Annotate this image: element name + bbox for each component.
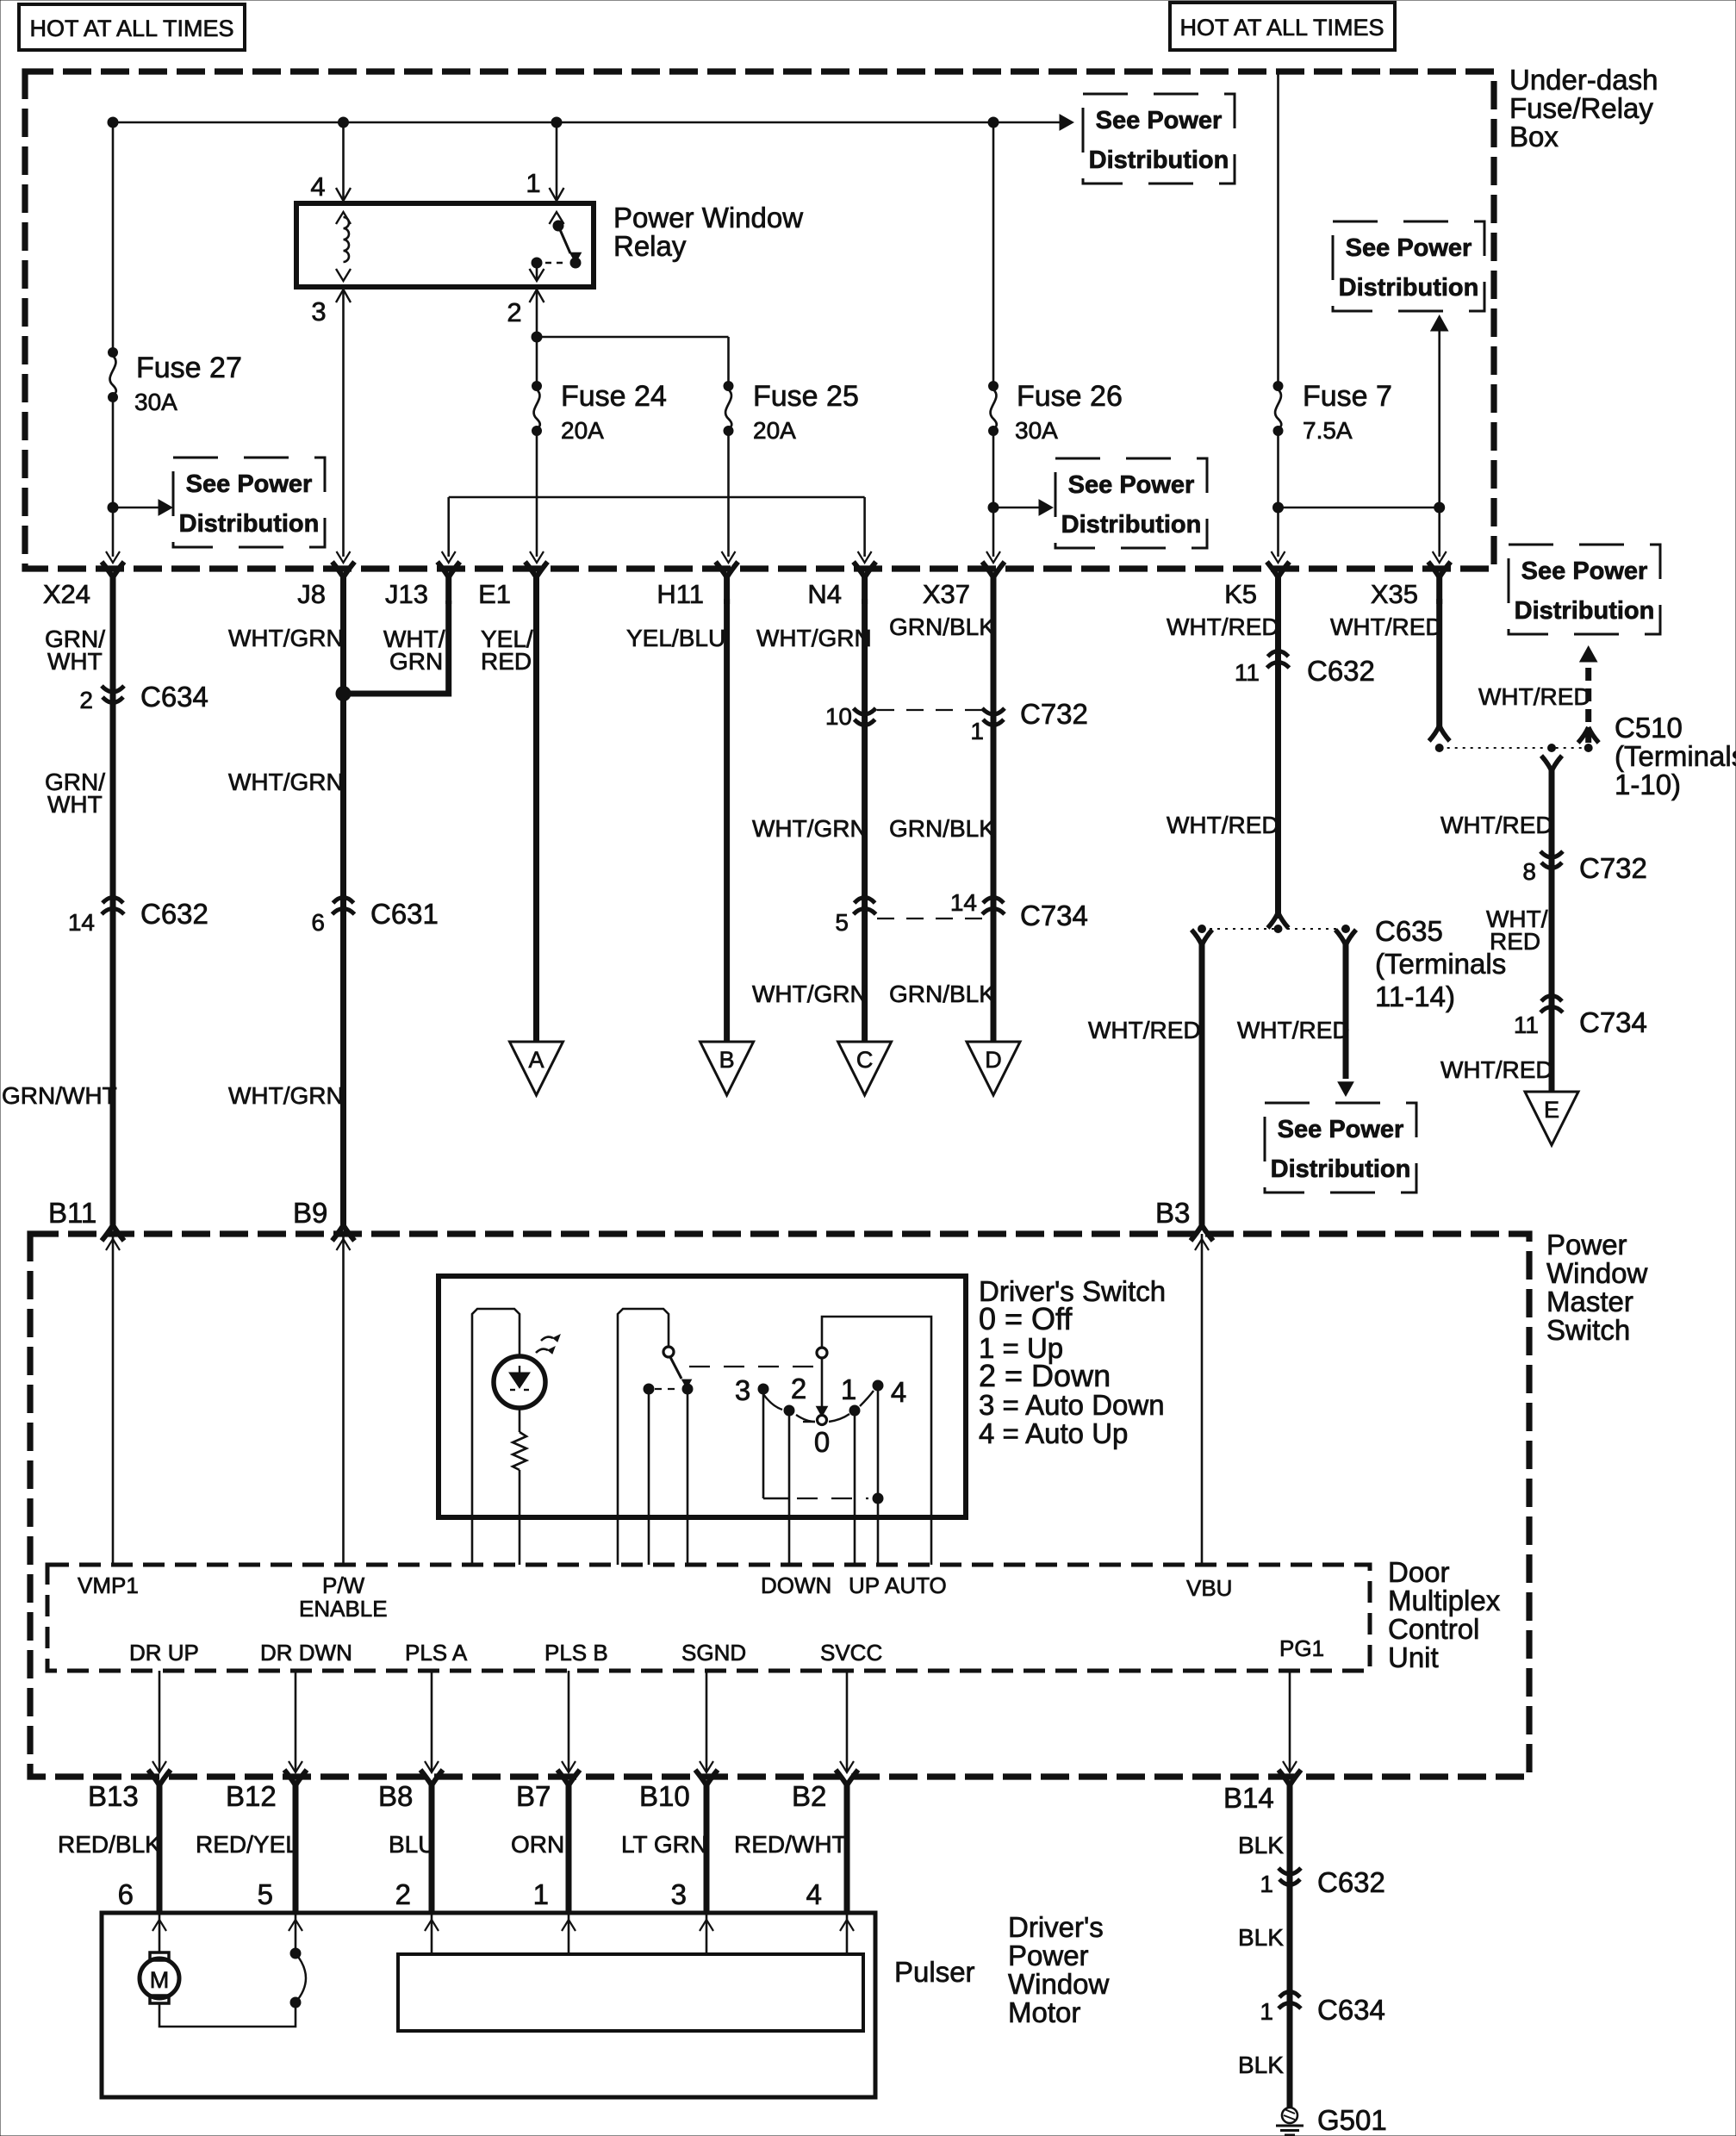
relay coil pin4 chevron	[336, 212, 351, 224]
wire E1 YEL/RED	[533, 599, 539, 1042]
svg-text:X35: X35	[1371, 579, 1418, 609]
P/W enable dashed link	[655, 1388, 681, 1390]
svg-text:Window: Window	[1008, 1968, 1110, 2000]
svg-text:YEL/BLU: YEL/BLU	[626, 625, 725, 651]
svg-text:C732: C732	[1579, 852, 1647, 884]
relay switch dashed link	[545, 262, 566, 264]
svg-text:Pulser: Pulser	[894, 1956, 975, 1988]
svg-text:10: 10	[825, 703, 852, 730]
svg-text:C734: C734	[1579, 1006, 1647, 1038]
svg-text:B11: B11	[48, 1197, 96, 1229]
relay switch common node	[553, 221, 563, 231]
driver's switch box	[439, 1276, 966, 1517]
svg-text:SGND: SGND	[681, 1640, 746, 1666]
node fuse7-X35 corner	[1434, 502, 1445, 513]
svg-text:VMP1: VMP1	[78, 1572, 139, 1598]
svg-text:Multiplex: Multiplex	[1388, 1585, 1501, 1616]
svg-text:WHT/GRN: WHT/GRN	[228, 1082, 344, 1109]
arrowhead into motor box x=820	[700, 1920, 713, 1931]
wire fuse7 to X35	[1279, 507, 1440, 509]
svg-text:Master: Master	[1546, 1286, 1633, 1317]
see power distribution box 1	[173, 458, 325, 547]
P/W enable contact b	[682, 1384, 693, 1394]
wire branch J13/N4	[449, 496, 865, 499]
connector C732 pin10	[854, 708, 876, 725]
svg-text:B10: B10	[639, 1780, 690, 1812]
wire to pulser x=820	[706, 1913, 708, 1954]
svg-text:B13: B13	[88, 1780, 139, 1812]
svg-text:BLK: BLK	[1238, 1832, 1284, 1859]
svg-text:GRN/BLK: GRN/BLK	[889, 815, 995, 842]
rotary contact 3	[758, 1384, 768, 1394]
node fuse7 tap	[1273, 502, 1284, 513]
label HOT AT ALL TIMES (right)	[1170, 3, 1395, 50]
connector J13	[438, 562, 460, 604]
wire SGND to connector	[706, 1671, 708, 1772]
node A (to front window circuits)	[510, 1042, 563, 1095]
pulser switch contact bottom	[290, 1997, 301, 2008]
svg-text:Door: Door	[1388, 1556, 1450, 1588]
svg-text:11-14): 11-14)	[1375, 981, 1455, 1012]
svg-text:30A: 30A	[1015, 417, 1058, 444]
wire fuse 7 feed	[1277, 72, 1279, 382]
svg-text:1: 1	[533, 1878, 549, 1910]
node C510-c	[1584, 744, 1592, 752]
svg-text:Power: Power	[1008, 1940, 1089, 1971]
svg-text:Fuse 27: Fuse 27	[136, 352, 242, 384]
svg-text:Power Window: Power Window	[613, 202, 803, 234]
svg-text:GRN/BLK: GRN/BLK	[889, 613, 995, 640]
node bus-relay pin1	[551, 117, 562, 128]
wire fuse25 to H11	[727, 433, 730, 557]
arrowhead into motor box x=660	[562, 1920, 576, 1931]
node bus-X37	[988, 117, 999, 128]
resistor R (LED)	[513, 1432, 526, 1470]
svg-text:PLS B: PLS B	[544, 1640, 608, 1666]
node fuse26 tap	[988, 502, 999, 513]
node C635-b	[1274, 925, 1282, 933]
connector C734 pin14	[982, 898, 1005, 915]
connector C635 wire end	[1268, 912, 1289, 928]
node E	[1525, 1092, 1578, 1145]
svg-text:Distribution: Distribution	[179, 510, 320, 538]
wire B8 to motor	[429, 1808, 435, 1913]
svg-text:ORN: ORN	[511, 1831, 564, 1858]
svg-text:4: 4	[310, 171, 325, 202]
svg-text:C: C	[856, 1047, 874, 1073]
connector B7	[557, 1770, 580, 1812]
connector B2	[836, 1770, 858, 1812]
wire SVCC to connector	[846, 1671, 849, 1772]
svg-text:C510: C510	[1615, 712, 1683, 744]
pin 3 birdfoot	[336, 290, 351, 302]
svg-text:N4: N4	[807, 579, 842, 609]
svg-text:3 = Auto Down: 3 = Auto Down	[979, 1389, 1165, 1421]
svg-text:5: 5	[258, 1878, 273, 1910]
wire P/W enable switch loop	[618, 1309, 669, 1565]
svg-text:0: 0	[814, 1426, 830, 1458]
svg-text:C734: C734	[1020, 900, 1088, 931]
svg-text:See Power: See Power	[1346, 234, 1472, 262]
svg-text:2 = Down: 2 = Down	[979, 1358, 1111, 1393]
connector C732 pin1	[982, 708, 1005, 725]
wire LED to resistor	[519, 1408, 521, 1432]
node fuse27 tap	[108, 502, 118, 513]
connector C734 pin5	[854, 898, 876, 915]
svg-text:See Power: See Power	[1521, 557, 1648, 585]
svg-text:DOWN: DOWN	[761, 1572, 831, 1598]
node C635-c	[1342, 925, 1350, 933]
connector B10	[695, 1770, 718, 1812]
wire resistor down	[519, 1470, 521, 1565]
relay switch NO contact	[570, 258, 581, 268]
svg-text:A: A	[528, 1047, 544, 1073]
svg-text:B12: B12	[226, 1780, 277, 1812]
connector C634 pin2	[102, 686, 124, 703]
relay pin2 link	[536, 266, 538, 279]
svg-text:11: 11	[1235, 659, 1260, 686]
wire jumper to fuse25	[537, 336, 729, 339]
svg-text:B9: B9	[293, 1197, 327, 1229]
ground G501	[1282, 2108, 1297, 2123]
svg-text:C632: C632	[1317, 1866, 1385, 1898]
wire B3 WHT/RED	[1199, 943, 1205, 1217]
rotary contact 2	[784, 1405, 794, 1416]
connector C510 pin8 wire start	[1541, 756, 1562, 771]
svg-text:WHT/GRN: WHT/GRN	[756, 625, 872, 651]
svg-text:0 = Off: 0 = Off	[979, 1301, 1073, 1336]
svg-text:WHT/RED: WHT/RED	[1088, 1017, 1201, 1043]
fuse F27	[109, 348, 118, 402]
wire B12 to motor	[293, 1808, 299, 1913]
relay coil pin3 chevron	[336, 269, 351, 281]
svg-text:2: 2	[791, 1373, 806, 1404]
rotary position 0 node	[818, 1416, 827, 1425]
svg-text:WHT: WHT	[47, 648, 103, 675]
svg-text:6: 6	[311, 909, 325, 936]
see power distribution box 5	[1509, 545, 1660, 634]
svg-text:B: B	[719, 1047, 735, 1073]
bus arrow to See Power Distribution	[1060, 115, 1073, 130]
wire to pulser x=501	[431, 1913, 433, 1954]
svg-text:BLK: BLK	[1238, 1924, 1284, 1951]
connector J8	[333, 562, 355, 604]
svg-text:WHT/RED: WHT/RED	[1440, 812, 1553, 838]
pulser box	[398, 1954, 863, 2031]
wire PLS A to connector	[431, 1671, 433, 1772]
svg-text:RED: RED	[481, 648, 532, 675]
svg-text:Box: Box	[1509, 121, 1559, 153]
P/W enable switch pivot	[663, 1347, 674, 1357]
rotary contact 1	[849, 1405, 860, 1416]
fuse F25	[724, 382, 733, 436]
rotary contact 4	[873, 1380, 883, 1391]
svg-text:20A: 20A	[561, 417, 604, 444]
svg-text:See Power: See Power	[1096, 107, 1223, 134]
svg-text:Distribution: Distribution	[1089, 146, 1229, 174]
svg-text:C634: C634	[1317, 1994, 1385, 2026]
svg-text:14: 14	[68, 909, 95, 936]
wire relay pin4 feed	[342, 122, 345, 202]
connector E1	[526, 562, 548, 604]
see power distribution box 6	[1265, 1103, 1416, 1193]
svg-text:B2: B2	[792, 1780, 826, 1812]
svg-text:See Power: See Power	[186, 470, 313, 498]
svg-text:C631: C631	[370, 898, 439, 930]
wire X37 GRN/BLK	[991, 599, 997, 1042]
svg-text:1: 1	[526, 168, 540, 198]
node pin2 branch	[532, 332, 542, 342]
svg-text:1: 1	[841, 1373, 856, 1405]
wire PG1 to connector	[1289, 1671, 1291, 1772]
wire VBU (B3 internal)	[1201, 1234, 1204, 1565]
pin 1 birdfoot	[550, 188, 564, 201]
connector C734 pin11	[1540, 996, 1563, 1013]
wire B2 to motor	[844, 1808, 850, 1913]
wire relay pin3 to J8	[342, 290, 345, 557]
svg-text:K5: K5	[1224, 579, 1257, 609]
connector B9	[333, 1199, 355, 1241]
svg-text:WHT/GRN: WHT/GRN	[228, 769, 344, 795]
wire contact 1 down (UP)	[854, 1416, 856, 1565]
wire to pulser x=660	[568, 1913, 570, 1954]
wire to power distribution (down)	[1343, 943, 1349, 1079]
wire arrow to power distribution 2	[999, 507, 1041, 509]
node contact4 link	[873, 1493, 883, 1504]
relay pin2 chevron	[530, 269, 544, 281]
svg-text:4: 4	[806, 1878, 822, 1910]
svg-text:P/W: P/W	[322, 1572, 365, 1598]
connector H11	[716, 562, 738, 604]
svg-text:WHT/RED: WHT/RED	[1167, 613, 1279, 640]
svg-text:E: E	[1544, 1097, 1559, 1123]
svg-text:1-10): 1-10)	[1615, 769, 1681, 800]
wire power bus	[113, 121, 1060, 124]
svg-text:H11: H11	[656, 579, 704, 609]
node B	[700, 1042, 754, 1095]
svg-text:WHT/RED: WHT/RED	[1237, 1017, 1350, 1043]
door multiplex control unit box (dashed)	[47, 1565, 1370, 1671]
svg-text:Control: Control	[1388, 1613, 1479, 1645]
wire motor return	[159, 2003, 296, 2027]
svg-text:Distribution: Distribution	[1061, 511, 1202, 539]
connector C635 dotted line	[1202, 928, 1346, 930]
svg-text:Fuse/Relay: Fuse/Relay	[1509, 92, 1653, 124]
svg-text:2: 2	[507, 297, 521, 327]
LED diode symbol	[509, 1373, 530, 1388]
wire B10 to motor	[704, 1808, 710, 1913]
wire DR DWN to connector	[295, 1671, 297, 1772]
wire arrow to power distribution	[118, 507, 160, 509]
svg-text:C632: C632	[140, 898, 208, 930]
svg-text:30A: 30A	[134, 389, 177, 415]
relay switch NC contact	[532, 258, 542, 268]
svg-text:2: 2	[79, 687, 93, 713]
svg-text:HOT AT ALL TIMES: HOT AT ALL TIMES	[1179, 15, 1384, 40]
svg-text:Driver's: Driver's	[1008, 1911, 1104, 1943]
wire B13 to motor	[157, 1808, 163, 1913]
motor M circle	[140, 1959, 179, 1998]
node J8-J13 junction	[336, 687, 351, 701]
rotary selector arrow	[821, 1359, 824, 1406]
svg-text:2: 2	[395, 1878, 411, 1910]
wire J13 branch	[344, 601, 449, 694]
connector C632 pin14	[102, 898, 124, 915]
svg-text:Fuse 7: Fuse 7	[1303, 380, 1392, 413]
motor M terminals	[150, 1952, 169, 1960]
svg-text:AUTO: AUTO	[885, 1572, 947, 1598]
svg-text:11: 11	[1514, 1012, 1539, 1038]
wire LED loop	[472, 1309, 520, 1565]
wire J8 WHT/GRN	[340, 599, 346, 1217]
driver's power window motor box	[102, 1913, 875, 2097]
svg-text:WHT/GRN: WHT/GRN	[752, 815, 868, 842]
wire drop to J13	[447, 497, 450, 557]
svg-text:M: M	[150, 1967, 170, 1993]
node bus-X24	[108, 117, 118, 128]
wire B7 to motor	[566, 1808, 572, 1913]
svg-text:X37: X37	[923, 579, 970, 609]
fuse F7	[1273, 382, 1283, 436]
svg-text:Fuse 26: Fuse 26	[1017, 380, 1123, 413]
svg-text:GRN/WHT: GRN/WHT	[2, 1082, 117, 1109]
svg-text:B7: B7	[516, 1780, 551, 1812]
svg-text:BLK: BLK	[1238, 2052, 1284, 2078]
connector C632 pin1 (gnd)	[1279, 1868, 1301, 1885]
svg-text:RED/YEL: RED/YEL	[196, 1831, 299, 1858]
wire C734 dashed link	[877, 918, 982, 919]
svg-text:WHT/RED: WHT/RED	[1478, 683, 1591, 710]
svg-text:3: 3	[311, 296, 326, 327]
svg-text:Distribution: Distribution	[1271, 1155, 1411, 1183]
see power distribution box 3	[1333, 221, 1484, 311]
connector N4	[854, 562, 876, 604]
svg-text:Power: Power	[1546, 1229, 1627, 1261]
svg-text:GRN: GRN	[389, 648, 443, 675]
wire relay pin2 to fuse24	[536, 287, 538, 382]
node C510-b	[1548, 744, 1556, 752]
wire fuse 26 feed	[992, 122, 995, 382]
connector C510 wire end	[1429, 725, 1450, 741]
connector C634 pin1 (gnd)	[1279, 1992, 1301, 2009]
wire VMP1 (B11 internal)	[112, 1234, 115, 1565]
svg-text:WHT/RED: WHT/RED	[1330, 613, 1443, 640]
svg-text:Motor: Motor	[1008, 1996, 1080, 2028]
svg-text:DR UP: DR UP	[129, 1640, 199, 1666]
svg-text:ENABLE: ENABLE	[299, 1596, 388, 1622]
wire contact 2 down (DOWN)	[788, 1416, 791, 1565]
fuse F24	[532, 382, 542, 436]
svg-text:C635: C635	[1375, 915, 1443, 947]
connector X24	[102, 562, 124, 604]
pin 2 birdfoot	[530, 290, 544, 302]
svg-text:1: 1	[970, 718, 984, 744]
wire contact 4 down	[877, 1391, 880, 1565]
switch link dashed	[689, 1366, 818, 1367]
svg-text:See Power: See Power	[1278, 1116, 1404, 1143]
wire contact-a down	[648, 1389, 650, 1565]
wire X35 WHT/RED	[1436, 599, 1442, 729]
wire PLS B to connector	[568, 1671, 570, 1772]
svg-text:UP: UP	[849, 1572, 880, 1598]
svg-text:7.5A: 7.5A	[1303, 417, 1353, 444]
svg-text:SVCC: SVCC	[820, 1640, 882, 1666]
node bus-relay pin4	[339, 117, 349, 128]
wire P/W ENABLE (B9 internal)	[342, 1234, 345, 1565]
node C	[838, 1042, 892, 1095]
connector X35	[1428, 562, 1451, 604]
svg-text:20A: 20A	[753, 417, 796, 444]
svg-text:8: 8	[1522, 858, 1536, 885]
arrowhead into motor box x=501	[425, 1920, 439, 1931]
svg-text:Window: Window	[1546, 1257, 1648, 1289]
connector B3 wire start	[1192, 930, 1212, 945]
connector K5	[1267, 562, 1290, 604]
P/W enable switch lever	[670, 1357, 681, 1379]
svg-text:Distribution: Distribution	[1515, 597, 1655, 625]
svg-text:B8: B8	[378, 1780, 413, 1812]
wire fuse24 to E1	[536, 433, 538, 557]
svg-text:Relay: Relay	[613, 230, 687, 262]
relay switch lever	[558, 226, 570, 253]
wire drop to N4	[863, 497, 866, 557]
svg-text:5: 5	[835, 909, 849, 936]
wire dashed up to power distribution	[1585, 665, 1591, 743]
svg-text:Fuse 24: Fuse 24	[561, 380, 667, 413]
wire B13 to motor +	[159, 1913, 161, 1952]
relay pin1 chevron	[550, 212, 564, 224]
wire up-arrow to power distribution	[1438, 327, 1440, 508]
svg-text:14: 14	[950, 889, 977, 916]
arrowhead into motor box x=983	[840, 1920, 854, 1931]
svg-text:WHT/RED: WHT/RED	[1167, 812, 1279, 838]
arrowhead into motor box x=343	[289, 1920, 302, 1931]
arrowhead X24 feed	[106, 551, 120, 563]
svg-text:Distribution: Distribution	[1339, 274, 1479, 302]
connector B8	[420, 1770, 443, 1812]
rotary common contact	[817, 1348, 827, 1358]
svg-text:J8: J8	[297, 579, 326, 609]
rotary dashed bottom link	[797, 1498, 868, 1499]
svg-text:C732: C732	[1020, 698, 1088, 730]
relay coil	[344, 217, 350, 262]
svg-text:RED/WHT: RED/WHT	[734, 1831, 847, 1858]
under-dash fuse/relay box (dashed)	[25, 72, 1494, 569]
svg-text:GRN/BLK: GRN/BLK	[889, 981, 995, 1007]
svg-text:PLS A: PLS A	[405, 1640, 468, 1666]
svg-text:6: 6	[118, 1878, 134, 1910]
wire relay pin1 feed	[556, 122, 558, 202]
wire fuse 27 feed	[112, 122, 115, 348]
connector spd wire start	[1335, 930, 1356, 945]
svg-text:4: 4	[891, 1376, 906, 1408]
svg-text:LT GRN: LT GRN	[621, 1831, 707, 1858]
pulser switch contact top	[290, 1948, 301, 1959]
svg-text:VBU: VBU	[1186, 1575, 1232, 1601]
wire C510-E WHT/RED	[1549, 769, 1555, 1092]
LED indicator circle	[494, 1356, 545, 1408]
LED emission arrows	[536, 1349, 548, 1353]
connector B13	[148, 1770, 171, 1812]
wire to pulser x=983	[846, 1913, 849, 1954]
svg-text:BLU: BLU	[389, 1831, 435, 1858]
arrowhead into motor box x=185	[152, 1920, 166, 1931]
svg-text:C634: C634	[140, 681, 208, 713]
power window master switch box (dashed)	[30, 1234, 1529, 1777]
connector C732 pin8	[1540, 851, 1563, 869]
svg-text:Under-dash: Under-dash	[1509, 64, 1658, 96]
wire B14 BLK	[1287, 1808, 1293, 2108]
